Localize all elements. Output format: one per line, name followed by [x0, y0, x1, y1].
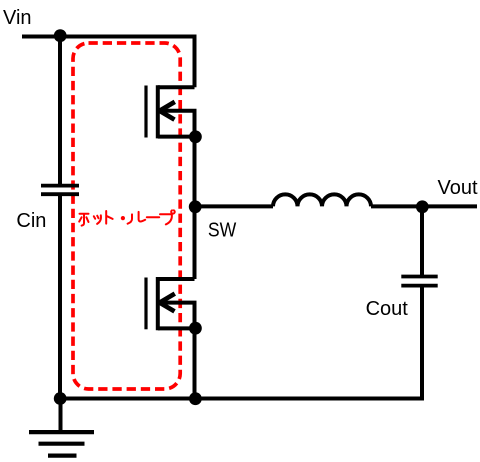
・ — [121, 216, 125, 220]
ー — [147, 216, 159, 218]
capacitor Cin top plate — [41, 184, 79, 188]
capacitor Cout bottom plate — [401, 284, 437, 288]
transistor Q1 channel bar — [156, 85, 160, 138]
svg-text:Cin: Cin — [16, 210, 46, 232]
inductor L1 (four humps) — [273, 194, 371, 206]
transistor Q2 bottom (source) stub — [158, 326, 197, 330]
ホ — [79, 214, 88, 226]
transistor Q2 source/body arrow shaft — [163, 303, 195, 329]
transistor Q1 source/body arrow shaft — [163, 111, 195, 137]
capacitor Cin bottom plate — [41, 192, 79, 196]
node: Vout junction dot — [416, 200, 429, 213]
node: ground rail junction dot at Q2 leg — [189, 392, 202, 405]
transistor Q1 bottom (source) stub — [158, 135, 197, 139]
ground symbol bar 1 — [29, 430, 94, 434]
transistor Q1 drain stub — [158, 85, 195, 89]
transistor Q1 (high-side MOSFET) gate bar — [144, 86, 147, 138]
ground symbol bar 3 — [48, 454, 77, 458]
svg-text:Vout: Vout — [438, 177, 478, 199]
node: Q2 source junction dot — [189, 322, 202, 335]
node: Q1 source junction dot — [189, 130, 202, 143]
svg-text:SW: SW — [208, 219, 237, 241]
ト — [106, 211, 112, 224]
svg-text:Vin: Vin — [3, 7, 32, 29]
transistor Q2 drain stub — [158, 277, 195, 281]
wire: Cout bottom plate down and ground return rail to left bus — [60, 286, 422, 399]
svg-text:Cout: Cout — [366, 298, 409, 320]
wire: left input bus upper segment (Vin to Cin top plate) — [58, 37, 62, 185]
ground symbol bar 2 — [39, 442, 85, 446]
wire: inductor to Vout rail — [371, 204, 477, 208]
ル — [128, 212, 146, 224]
wire: Vin horizontal rail into Q1 drain — [22, 37, 195, 88]
node: Vin junction dot — [54, 29, 67, 42]
wire: switch-node bus between Q1 source and Q2 drain — [193, 137, 197, 279]
wire: left input bus lower segment (Cin bottom plate to ground rail) — [58, 194, 62, 398]
ground symbol stem — [59, 399, 63, 433]
node: ground rail junction dot at left bus — [54, 392, 67, 405]
wire: SW horizontal to inductor — [195, 204, 274, 208]
wire: Q2 source down to ground rail — [193, 328, 197, 398]
capacitor Cout top plate — [401, 275, 437, 279]
node: SW junction dot — [189, 200, 202, 213]
transistor Q2 arrow head (points left) — [160, 294, 175, 312]
label "ホット・ループ" (red katakana, drawn as paths) — [79, 210, 175, 225]
transistor Q2 channel bar — [156, 277, 160, 330]
transistor Q2 (low-side MOSFET) gate bar — [144, 278, 147, 330]
プ — [160, 210, 175, 224]
hot-loop boundary (red dashed rounded rectangle) — [73, 43, 180, 389]
wire: Vout dot down to Cout top plate — [420, 206, 424, 275]
transistor Q1 arrow head (points left) — [160, 102, 175, 120]
ッ — [94, 215, 101, 224]
